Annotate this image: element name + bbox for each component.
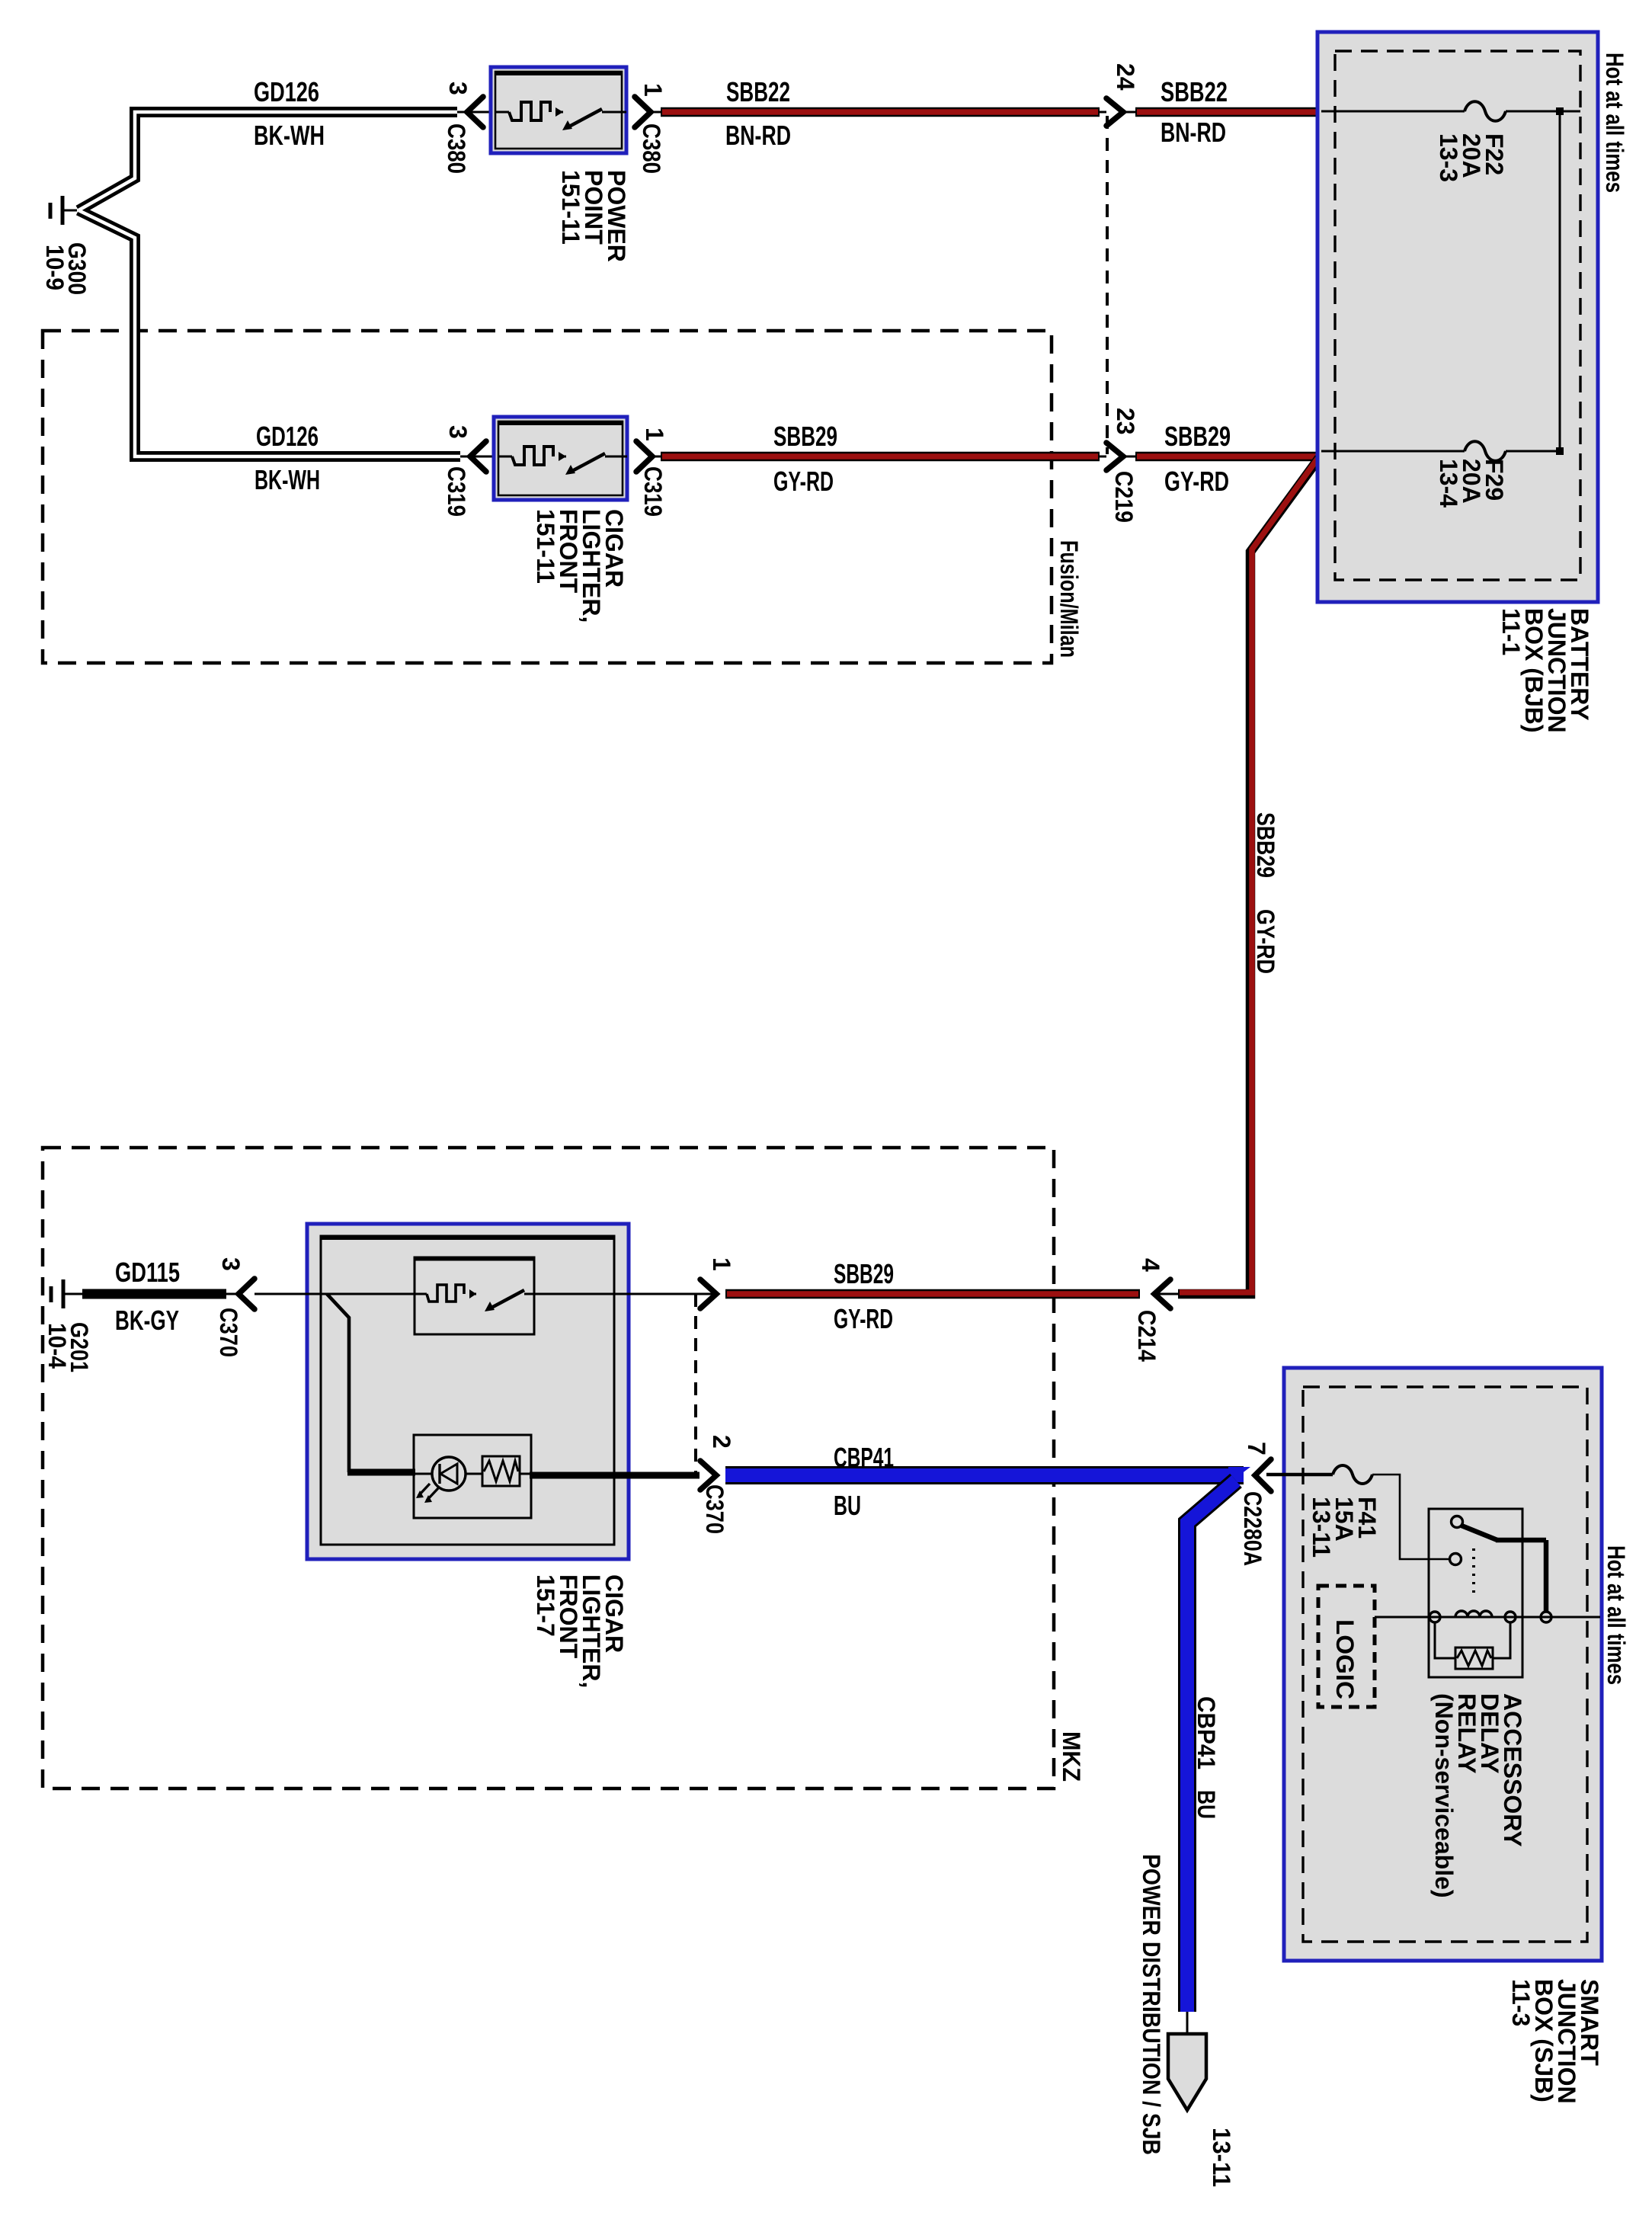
svg-text:3: 3 (217, 1257, 245, 1271)
svg-text:GY-RD: GY-RD (834, 1303, 893, 1334)
svg-text:GD115: GD115 (115, 1257, 180, 1288)
svg-text:C219: C219 (1110, 471, 1138, 523)
svg-text:13-11: 13-11 (1208, 2128, 1235, 2187)
svg-text:C380: C380 (443, 123, 470, 174)
svg-text:SBB22: SBB22 (726, 76, 790, 107)
svg-text:POWER DISTRIBUTION / SJB: POWER DISTRIBUTION / SJB (1138, 1854, 1165, 2155)
svg-text:1: 1 (641, 428, 668, 441)
svg-text:10-9: 10-9 (41, 245, 69, 290)
svg-text:C319: C319 (639, 466, 667, 517)
svg-text:2: 2 (708, 1435, 735, 1449)
svg-text:3: 3 (444, 82, 472, 95)
svg-text:23: 23 (1112, 408, 1139, 435)
svg-text:C370: C370 (215, 1308, 242, 1357)
svg-text:CBP41: CBP41 (834, 1442, 894, 1473)
svg-text:BN-RD: BN-RD (1161, 117, 1226, 148)
svg-text:BN-RD: BN-RD (725, 120, 791, 151)
svg-text:10-4: 10-4 (43, 1323, 71, 1369)
svg-text:BU: BU (834, 1490, 861, 1521)
svg-text:Fusion/Milan: Fusion/Milan (1055, 540, 1083, 658)
svg-text:3: 3 (444, 425, 472, 439)
svg-text:1: 1 (708, 1257, 735, 1271)
svg-text:SBB29: SBB29 (1164, 421, 1231, 452)
svg-text:SBB29: SBB29 (1252, 812, 1279, 878)
svg-text:GY-RD: GY-RD (1252, 909, 1279, 974)
svg-text:C319: C319 (443, 466, 470, 517)
svg-text:GY-RD: GY-RD (1164, 466, 1229, 497)
svg-text:GD126: GD126 (256, 421, 319, 452)
svg-text:BK-GY: BK-GY (115, 1305, 179, 1336)
svg-text:BK-WH: BK-WH (254, 120, 325, 151)
svg-text:SBB22: SBB22 (1161, 76, 1228, 107)
svg-text:C214: C214 (1133, 1310, 1161, 1362)
svg-text:C370: C370 (701, 1484, 728, 1534)
svg-text:C380: C380 (638, 123, 665, 174)
svg-text:BU: BU (1193, 1790, 1220, 1819)
svg-text:F2920A13-4: F2920A13-4 (1435, 459, 1508, 508)
svg-text:Hot at all times: Hot at all times (1602, 1545, 1630, 1685)
svg-text:7: 7 (1243, 1442, 1270, 1455)
svg-text:BK-WH: BK-WH (255, 464, 320, 495)
svg-text:CBP41: CBP41 (1193, 1696, 1220, 1769)
svg-text:24: 24 (1112, 63, 1139, 91)
svg-text:SBB29: SBB29 (834, 1258, 894, 1289)
svg-text:F2220A13-3: F2220A13-3 (1435, 133, 1508, 182)
svg-text:1: 1 (639, 83, 667, 97)
svg-text:C2280A: C2280A (1239, 1491, 1266, 1566)
svg-text:LOGIC: LOGIC (1331, 1619, 1359, 1699)
svg-text:MKZ: MKZ (1058, 1731, 1085, 1782)
svg-text:SBB29: SBB29 (773, 421, 837, 452)
svg-text:GY-RD: GY-RD (773, 466, 834, 497)
svg-text:GD126: GD126 (254, 76, 319, 107)
svg-text:Hot at all times: Hot at all times (1601, 53, 1628, 193)
svg-text:4: 4 (1137, 1258, 1164, 1272)
